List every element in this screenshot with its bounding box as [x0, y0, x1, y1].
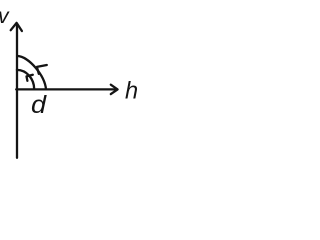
svg-text:h: h [125, 79, 138, 105]
svg-text:v: v [0, 5, 10, 28]
svg-text:d: d [31, 92, 48, 119]
wire v-axis shaft [16, 24, 18, 158]
wire large arc arrowhead [37, 65, 47, 74]
wire v-axis arrowhead [11, 23, 22, 31]
wire small angle arc [17, 70, 34, 89]
wire h-axis arrowhead [111, 85, 118, 94]
wire small arc arrowhead [27, 75, 33, 81]
wire large angle arc [17, 56, 46, 89]
wire h-axis shaft [16, 88, 117, 90]
